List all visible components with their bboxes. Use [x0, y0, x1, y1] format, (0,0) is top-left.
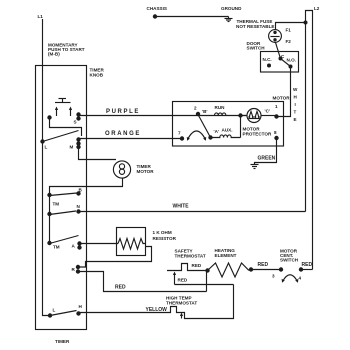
node motor terminal 2	[194, 106, 208, 117]
wire red lower loop	[175, 284, 234, 286]
svg-text:TM: TM	[53, 245, 60, 250]
wire junction descend	[206, 271, 208, 292]
node motor terminal A	[208, 129, 219, 140]
wire push left to M leg	[50, 118, 82, 137]
svg-text:L: L	[45, 145, 48, 150]
node TM1 left contact	[47, 193, 51, 197]
svg-text:(M-B): (M-B)	[48, 52, 60, 57]
run winding	[198, 105, 247, 116]
svg-text:KNOB: KNOB	[90, 73, 104, 78]
svg-text:A: A	[72, 244, 76, 249]
wire L-H arm	[50, 311, 77, 316]
svg-text:CHASSIS: CHASSIS	[147, 6, 167, 11]
wire TM1 arm to B	[50, 193, 78, 196]
svg-text:E: E	[294, 117, 297, 122]
node motor junction	[238, 113, 242, 117]
wire purple	[79, 115, 199, 117]
svg-text:RUN: RUN	[215, 105, 226, 110]
motor internal arc	[187, 131, 206, 141]
svg-text:L1: L1	[38, 14, 44, 19]
svg-text:ORANGE: ORANGE	[105, 131, 141, 137]
svg-text:R: R	[72, 267, 76, 272]
heating element	[208, 248, 254, 277]
svg-text:H: H	[294, 95, 298, 100]
wire timer motor return	[50, 178, 123, 243]
node L	[40, 139, 47, 149]
svg-text:W: W	[293, 87, 298, 92]
motor centrifugal switch	[272, 249, 303, 283]
node TM1b left contact	[47, 212, 51, 216]
svg-text:RED: RED	[258, 262, 269, 268]
svg-text:SWITCH: SWITCH	[280, 258, 299, 263]
node junction fuse/white leg	[304, 21, 308, 25]
svg-text:N.C.: N.C.	[263, 57, 272, 62]
svg-text:1 K OHM: 1 K OHM	[153, 230, 172, 235]
wire switch 4 to L2	[301, 269, 313, 271]
node motor terminal 1	[265, 104, 279, 119]
node L2	[314, 6, 320, 11]
motor box	[173, 96, 291, 147]
wire aux join	[240, 116, 242, 138]
svg-text:TIMER: TIMER	[55, 339, 70, 344]
svg-text:N.O.: N.O.	[287, 58, 296, 63]
node motor terminal 8	[274, 130, 279, 140]
wire chassis to ground	[155, 16, 229, 18]
svg-text:RED: RED	[192, 263, 202, 268]
node R	[72, 265, 81, 274]
node CHASSIS	[147, 6, 167, 19]
node H	[76, 304, 82, 316]
svg-text:L: L	[53, 308, 56, 313]
svg-text:ELEMENT: ELEMENT	[215, 253, 237, 258]
wire N.O. to motor terminal 1	[277, 67, 291, 117]
svg-text:RED: RED	[302, 262, 313, 268]
svg-text:GROUND: GROUND	[221, 6, 242, 11]
svg-text:RESISTOR: RESISTOR	[153, 236, 177, 241]
svg-text:PROTECTOR: PROTECTOR	[243, 132, 272, 137]
wire TM2 arm (open)	[50, 236, 79, 244]
wire M to timer motor	[79, 147, 117, 160]
svg-text:RED: RED	[115, 285, 126, 291]
svg-text:L2: L2	[314, 6, 320, 11]
node S	[74, 112, 81, 124]
svg-text:3: 3	[272, 274, 275, 279]
svg-text:B: B	[79, 188, 83, 193]
wire protector to terminal 1	[261, 115, 277, 117]
svg-text:MOTOR: MOTOR	[273, 96, 291, 101]
wire resistor return to R	[78, 247, 152, 268]
high temp thermostat arrow	[180, 313, 183, 319]
svg-text:T: T	[294, 110, 297, 115]
svg-text:H: H	[79, 304, 83, 309]
door switch	[247, 41, 299, 72]
wire L2 top U	[306, 11, 313, 270]
wire yellow to high temp thermostat	[79, 285, 234, 319]
resistor 1K OHM	[117, 228, 177, 256]
svg-text:1: 1	[275, 104, 278, 109]
svg-text:4: 4	[299, 276, 302, 281]
wire heater to switch 3	[251, 269, 281, 271]
svg-text:F1: F1	[286, 28, 292, 33]
wire fuse to L2 leg	[276, 23, 306, 30]
node A	[72, 241, 82, 249]
node motor terminal 7	[178, 131, 184, 141]
svg-text:GREEN: GREEN	[258, 156, 276, 162]
wire A to resistor	[80, 243, 119, 245]
motor switch arm 2-A	[198, 115, 211, 138]
node L1	[38, 14, 44, 19]
svg-text:7: 7	[178, 131, 181, 136]
svg-text:'B': 'B'	[202, 109, 208, 114]
svg-text:TM: TM	[53, 202, 60, 207]
svg-text:YELLOW: YELLOW	[146, 307, 168, 313]
node M	[70, 137, 81, 149]
node push left contact	[47, 115, 51, 119]
svg-text:S: S	[74, 120, 77, 125]
node TM2 left contact	[47, 241, 51, 245]
svg-text:'C': 'C'	[265, 109, 271, 114]
svg-text:F2: F2	[286, 39, 292, 44]
node B	[76, 188, 82, 196]
push-to-start button	[55, 99, 72, 117]
ground (chassis)	[221, 6, 242, 22]
svg-text:2: 2	[194, 106, 197, 111]
svg-text:THERMOSTAT: THERMOSTAT	[175, 254, 206, 259]
svg-text:RED: RED	[178, 278, 188, 283]
wire R lower red	[78, 272, 207, 292]
svg-text:PURPLE: PURPLE	[106, 109, 140, 115]
svg-text:SWITCH: SWITCH	[247, 46, 266, 51]
ground (green)	[251, 165, 259, 169]
node heater left junction	[205, 268, 209, 272]
wire L1 bus	[43, 19, 49, 316]
timer motor TM	[113, 161, 154, 178]
svg-text:NOT RESETABLE: NOT RESETABLE	[236, 24, 274, 29]
svg-text:8: 8	[274, 130, 277, 135]
momentary push to start label	[48, 43, 85, 57]
safety thermostat	[167, 249, 206, 271]
svg-text:'A': 'A'	[214, 129, 220, 134]
safety thermostat arrow	[173, 272, 176, 285]
svg-text:THERMOSTAT: THERMOSTAT	[166, 301, 197, 306]
svg-text:MOTOR: MOTOR	[137, 169, 155, 174]
svg-text:N: N	[77, 204, 81, 209]
wire L-M switch arm	[43, 131, 79, 142]
timer box	[36, 66, 87, 345]
thermal fuse F1-F2	[236, 19, 291, 44]
wire fuse to door switch C	[276, 42, 281, 57]
svg-text:WHITE: WHITE	[173, 204, 190, 210]
node white label vertical	[293, 87, 298, 122]
svg-text:AUX.: AUX.	[222, 128, 233, 133]
motor protector	[243, 109, 272, 137]
aux winding	[211, 128, 241, 138]
svg-text:I: I	[295, 102, 296, 107]
timer knob label	[90, 68, 105, 78]
svg-text:M: M	[70, 145, 74, 150]
node L bottom	[48, 308, 56, 318]
wire junction to protector	[241, 115, 248, 117]
high temp thermostat	[166, 296, 197, 306]
node N	[76, 204, 80, 214]
wire green	[255, 138, 277, 165]
wire white	[79, 211, 306, 213]
wire orange	[79, 138, 183, 140]
wire TM1b arm to N	[50, 211, 77, 215]
